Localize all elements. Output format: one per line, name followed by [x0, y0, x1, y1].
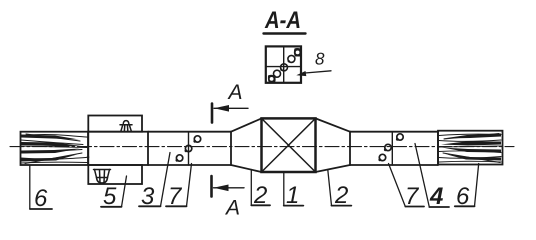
tube division line left — [188, 132, 190, 165]
label 2 right — [334, 182, 348, 209]
center block (1) with X — [262, 118, 316, 172]
title underline — [264, 32, 306, 34]
dark strand blob top-right — [294, 48, 301, 57]
label 3 — [141, 183, 155, 210]
section title A-A — [264, 7, 301, 34]
label 7 right — [405, 183, 420, 210]
label 8 — [315, 50, 325, 69]
label 1 — [286, 182, 299, 209]
taper right (2) — [316, 118, 351, 172]
label 6 left — [34, 185, 48, 212]
svg-text:A: A — [227, 81, 243, 104]
label 7 left — [168, 183, 183, 210]
svg-text:8: 8 — [315, 50, 325, 69]
section cut mark bottom (A) — [210, 176, 213, 197]
section square (view A-A) — [266, 46, 301, 82]
rope end left (6) — [21, 132, 89, 165]
svg-text:A-A: A-A — [264, 7, 301, 34]
label 4 — [429, 183, 443, 210]
leader arrow to square for label 8 — [305, 71, 331, 73]
svg-text:6: 6 — [34, 185, 48, 212]
dark strand blob bottom-left — [268, 75, 276, 83]
bottom bolt head — [94, 170, 111, 184]
tube section left (3) — [148, 132, 231, 165]
rope end right (6) — [438, 131, 503, 165]
label 6 right — [456, 183, 470, 210]
rope strands left — [21, 134, 89, 164]
rivet circles right (7) — [379, 134, 403, 161]
section square cross lines — [266, 46, 301, 82]
section cut mark top (A) — [211, 104, 214, 123]
clamp body — [88, 132, 148, 165]
rivet circles left (7) — [176, 136, 200, 161]
rope strands right — [439, 134, 501, 163]
top bolt head — [120, 121, 132, 131]
svg-text:4: 4 — [429, 183, 443, 210]
clamp bottom plate — [88, 165, 142, 184]
taper left (2) — [231, 118, 262, 172]
tube division line right — [391, 132, 393, 165]
strand circles in section — [274, 55, 295, 77]
svg-text:A: A — [224, 197, 240, 220]
label 2 left — [253, 182, 267, 209]
tube section right (4) — [350, 132, 438, 165]
centerline (dash-dot) — [10, 146, 514, 148]
clamp top plate (5) — [88, 116, 142, 132]
label 5 — [103, 183, 117, 210]
